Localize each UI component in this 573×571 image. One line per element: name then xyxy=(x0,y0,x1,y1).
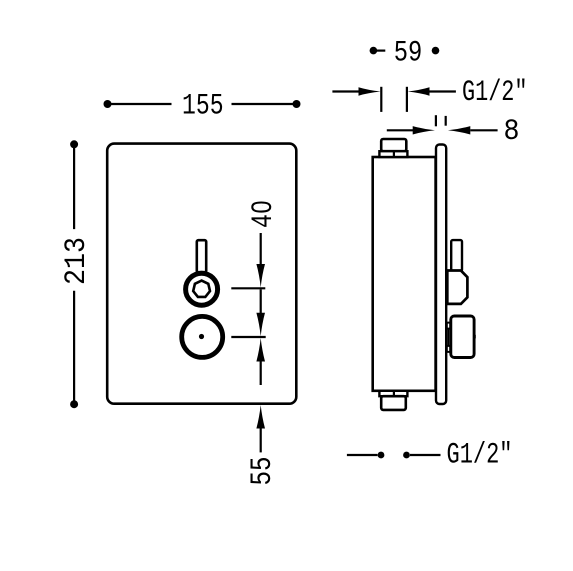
lower knob connector lower tab (side) xyxy=(447,346,451,352)
svg-text:59: 59 xyxy=(394,37,423,71)
dim 40 arrow down to upper ref xyxy=(256,264,265,288)
dim 40 zero dot cover xyxy=(256,204,263,210)
dim 8 right line xyxy=(470,129,497,131)
dim 8 left line xyxy=(387,129,414,131)
lever handle (side) xyxy=(451,240,462,271)
dim G1/2 top left arrow xyxy=(359,87,381,95)
wall plate (side) xyxy=(436,145,446,405)
dim 59 left dot xyxy=(370,47,378,55)
bottom outlet flange (side) xyxy=(379,391,407,396)
front plate xyxy=(107,144,296,404)
bottom outlet nut (side) xyxy=(381,396,406,410)
lower knob connector stem line (side) xyxy=(447,329,449,347)
dim 55 arrow up to plate bottom xyxy=(256,405,265,429)
top inlet nut (side) xyxy=(381,139,406,151)
lower knob center dot (front) xyxy=(199,334,204,339)
dim 40 line xyxy=(260,233,262,266)
dim 40 arrow down to lower ref xyxy=(256,313,265,337)
dim 155 left dot xyxy=(104,100,112,108)
dim 8 right arrow xyxy=(448,126,470,134)
dim G1/2 top right line xyxy=(430,90,456,92)
svg-text:G1/2": G1/2" xyxy=(447,439,513,473)
dim G1/2 bottom right line xyxy=(410,454,441,456)
svg-text:155: 155 xyxy=(182,90,224,124)
dim G1/2 bottom left line xyxy=(347,454,378,456)
svg-text:8: 8 xyxy=(504,115,520,149)
upper knob reference line xyxy=(231,287,265,289)
dim 155 right dot xyxy=(293,100,301,108)
lower knob connector upper tab (side) xyxy=(447,323,451,329)
svg-text:55: 55 xyxy=(246,457,280,486)
upper knob inner heptagon (front) xyxy=(193,281,210,297)
svg-text:G1/2": G1/2" xyxy=(462,76,528,110)
dim 213 line xyxy=(73,144,75,229)
dim 55 line upper xyxy=(260,362,262,386)
dim 40 line mid xyxy=(260,290,262,316)
upper knob body (side) xyxy=(447,271,467,304)
dim 8 tick 1 xyxy=(435,115,437,126)
lower knob body (side) xyxy=(451,316,474,358)
svg-text:40: 40 xyxy=(247,200,281,228)
dim 59 stub line xyxy=(375,49,385,51)
dim G1/2 top tick 2 xyxy=(406,87,408,112)
lower knob reference line xyxy=(231,336,265,338)
svg-text:213: 213 xyxy=(60,237,94,285)
top inlet flange (side) xyxy=(379,151,407,157)
dim 155 line xyxy=(108,103,172,105)
upper knob outer ring (front) xyxy=(186,273,218,305)
lever handle (front) xyxy=(197,240,206,272)
dim G1/2 top tick 1 xyxy=(380,87,382,112)
dim G1/2 bottom right dot xyxy=(403,452,410,459)
dim 213 bottom dot xyxy=(70,400,78,408)
dim 8 left arrow xyxy=(413,126,435,134)
dim 59 right dot xyxy=(432,47,440,55)
dim 213 top dot xyxy=(70,140,78,148)
valve body (side) xyxy=(373,157,436,391)
dim G1/2 top left line xyxy=(332,90,360,92)
dim 8 tick 2 xyxy=(445,116,447,126)
dim G1/2 bottom left dot xyxy=(378,452,385,459)
dim G1/2 top right arrow xyxy=(408,87,430,95)
dim 55 arrow up to lower ref xyxy=(256,338,265,362)
lower knob outer ring (front) xyxy=(182,316,223,357)
lower knob right nub (side) xyxy=(474,335,476,339)
dim 55 line lower xyxy=(260,429,262,453)
